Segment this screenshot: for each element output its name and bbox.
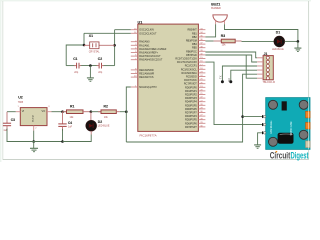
svg-text:10k: 10k [104, 116, 109, 119]
svg-text:LED-BLUE: LED-BLUE [272, 48, 284, 51]
svg-text:RD6/PSP6: RD6/PSP6 [185, 122, 197, 125]
wire buzzer left pin to U1 RB2 [205, 24, 215, 37]
svg-text:1: 1 [18, 106, 20, 108]
node ground rail U2 junction [32, 140, 35, 143]
crystal X1 label [89, 34, 93, 38]
node RX tap dot [229, 80, 232, 83]
LED D2 label [98, 120, 102, 124]
wire MCLR net: U1 pin1 down to bottom rail [126, 87, 131, 142]
svg-text:GSM Module: GSM Module [271, 120, 273, 134]
node ground rail C4 junction [61, 140, 64, 143]
connector J1 type label TBLOCK-I6 [263, 81, 276, 84]
connector J1 label [264, 52, 268, 56]
node crystal left junction [83, 44, 86, 47]
ground module [254, 144, 261, 146]
svg-text:C1: C1 [73, 57, 77, 61]
module orange connector 1 [306, 111, 311, 118]
capacitor C4 value 1uF [68, 126, 73, 129]
wire buzzer right pin to top rail [225, 24, 298, 41]
regulator U2 label [18, 96, 23, 100]
U2 pin numbers [18, 106, 20, 108]
svg-text:RB1: RB1 [192, 32, 197, 35]
resistor R2 label [104, 104, 108, 108]
connector J1 pin circles and stubs [257, 56, 269, 79]
crystal X1 value label CRYSTAL [89, 51, 100, 54]
svg-text:RD4/PSP4: RD4/PSP4 [185, 115, 197, 118]
node TX tap dot [221, 80, 224, 83]
svg-text:CRYSTAL: CRYSTAL [89, 51, 100, 54]
wire left node jog to C1 [66, 45, 84, 66]
svg-text:RB7/PGD: RB7/PGD [186, 54, 197, 57]
svg-text:RD6/PSP6: RD6/PSP6 [185, 108, 197, 111]
wire tap RX to J1 pin4 [231, 70, 257, 82]
capacitor C2 value 22p [98, 71, 103, 74]
wire long net to module pin1 [243, 116, 262, 118]
wire long net MCLR/module to J1 pin5 [126, 74, 257, 142]
module antenna black patch [278, 133, 294, 144]
capacitor C3 label [11, 118, 15, 122]
resistor R3 [214, 40, 222, 42]
svg-text:BUZZER: BUZZER [211, 7, 221, 10]
IC U1 PIC16F877A body [138, 24, 199, 131]
svg-text:C4: C4 [68, 121, 72, 125]
svg-text:R2: R2 [104, 104, 108, 108]
svg-text:10k: 10k [222, 43, 227, 46]
svg-text:1uF: 1uF [68, 126, 73, 129]
label TX tap [219, 75, 223, 79]
wire U1 RB3 to R3 [205, 40, 213, 42]
svg-text:C2: C2 [98, 57, 102, 61]
svg-text:RB2: RB2 [192, 36, 197, 39]
svg-text:U2: U2 [18, 96, 23, 100]
U1 left pins with numbers [131, 28, 167, 89]
svg-text:BUZ1: BUZ1 [211, 3, 220, 7]
wire crystal left node vertical [83, 33, 85, 45]
ground crystal caps [87, 77, 94, 79]
node crystal right junction [113, 44, 116, 47]
svg-text:RC3/SCK/SCL: RC3/SCK/SCL [181, 68, 198, 71]
sheet border overlay on module [308, 98, 310, 150]
svg-text:D1: D1 [276, 30, 280, 34]
svg-text:X1: X1 [89, 34, 93, 38]
op-amp U1 label [138, 20, 143, 24]
svg-text:RD0/PSP0: RD0/PSP0 [185, 86, 197, 89]
wire input rail C3 to U2 VI [7, 111, 16, 113]
svg-text:RB0/INT: RB0/INT [187, 29, 197, 32]
capacitor C1 value 22p [74, 71, 79, 74]
label RX tap [227, 78, 231, 82]
capacitor C2 [97, 65, 100, 67]
svg-text:OSC2/CLKOUT: OSC2/CLKOUT [139, 32, 157, 35]
svg-text:RD3/PSP3: RD3/PSP3 [185, 97, 197, 100]
capacitor C4 label [68, 121, 72, 125]
module silk text center (vertical) [291, 122, 293, 136]
svg-text:22p: 22p [98, 71, 103, 74]
crystal X1 leads [84, 44, 90, 46]
svg-text:RC0/T1OSO/T1CKI: RC0/T1OSO/T1CKI [175, 58, 197, 61]
LED D1 [274, 36, 285, 47]
wire R3 to D1 [242, 40, 275, 42]
U1 part-type label PIC16F877A [140, 134, 157, 138]
svg-text:LED-BLUE: LED-BLUE [98, 125, 110, 128]
svg-text:RA0/AN0: RA0/AN0 [139, 41, 150, 44]
svg-text:RB3/PGM: RB3/PGM [186, 40, 197, 43]
svg-text:RD2/PSP2: RD2/PSP2 [185, 94, 197, 97]
wire U1 RB6 to J1 pin1 [205, 52, 257, 58]
buzzer pins [215, 21, 217, 25]
sheet border [0, 0, 311, 1]
resistor R1 label [70, 104, 74, 108]
ground D1 [294, 47, 301, 49]
wire crystal right node vertical [114, 30, 116, 66]
module beige connector bottom right [306, 141, 311, 148]
svg-text:RD7/PSP7: RD7/PSP7 [185, 112, 197, 115]
svg-text:D2: D2 [98, 120, 102, 124]
svg-text:3: 3 [48, 106, 50, 108]
svg-text:RD1/PSP1: RD1/PSP1 [185, 90, 197, 93]
buzzer BUZ1 label [211, 3, 220, 7]
module board body [266, 98, 310, 150]
svg-text:RE1/AN6/WR: RE1/AN6/WR [139, 73, 154, 76]
wire C3 bottom to ground rail [7, 129, 63, 142]
buzzer BUZ1 type label BUZZER [211, 7, 221, 10]
resistor R3 label [221, 34, 225, 38]
module orange connector 2 [306, 122, 311, 129]
wire OSC1 from crystal right node to U1 pin 13 [115, 29, 131, 31]
svg-text:RD4/PSP4: RD4/PSP4 [185, 101, 197, 104]
connector J1 body [263, 56, 273, 80]
svg-text:SIM800 GSM: SIM800 GSM [291, 122, 293, 136]
svg-text:RB5: RB5 [192, 47, 197, 50]
module mounting holes [269, 100, 278, 109]
svg-text:RD7/PSP7: RD7/PSP7 [185, 126, 197, 129]
node C4 junction [61, 110, 64, 113]
svg-text:RD5/PSP5: RD5/PSP5 [185, 119, 197, 122]
node capacitor row ground junction [89, 64, 92, 67]
LED D2 top lead [90, 112, 92, 121]
wire C4 bottom to ground rail [62, 129, 64, 142]
svg-text:C3: C3 [11, 118, 15, 122]
resistor R3 value 10k [222, 43, 227, 46]
svg-text:RC4/SDI/SDA: RC4/SDI/SDA [181, 72, 197, 75]
regulator U2 body [20, 108, 47, 126]
capacitor C1 label [73, 57, 77, 61]
svg-text:2: 2 [35, 128, 37, 130]
wire 5V rail VO to R1 R2 MCLR [52, 111, 67, 113]
svg-text:RA3/AN3/VREF+: RA3/AN3/VREF+ [139, 52, 158, 55]
wire D2 bottom to ground rail [90, 131, 92, 135]
svg-text:RC6/TX/CK: RC6/TX/CK [184, 79, 197, 82]
svg-text:R3: R3 [221, 34, 225, 38]
wire ground stem D1 [297, 41, 299, 47]
wire capacitor row C1 C2 [66, 65, 75, 67]
LED D1 type label LED-BLUE [272, 48, 284, 51]
svg-text:MCLR/Vpp/THV: MCLR/Vpp/THV [139, 86, 157, 89]
capacitor C4 [62, 112, 64, 124]
wire U1 RB7 to J1 pin2 [205, 55, 257, 62]
svg-text:RB6/PGC: RB6/PGC [186, 50, 197, 53]
module pin terminals [262, 115, 265, 118]
svg-text:TX: TX [219, 75, 223, 79]
regulator U2 type label 7805 [18, 101, 24, 104]
svg-text:G: G [32, 116, 34, 118]
svg-text:RB4: RB4 [192, 43, 197, 46]
svg-text:RE2/AN7/CS: RE2/AN7/CS [139, 76, 154, 79]
U1 right pins with numbers [175, 28, 205, 129]
wire ground stem crystal [89, 66, 91, 78]
wire OSC2 from crystal left node to U1 pin 14 [84, 32, 131, 34]
svg-text:RA4/T0CKI/C1OUT: RA4/T0CKI/C1OUT [139, 55, 161, 58]
buzzer BUZ1 [213, 15, 227, 22]
capacitor C2 label [98, 57, 102, 61]
svg-text:RD5/PSP5: RD5/PSP5 [185, 104, 197, 107]
module component black rect top [282, 101, 287, 110]
svg-text:RA5/AN4/SS/C2OUT: RA5/AN4/SS/C2OUT [139, 59, 163, 62]
svg-text:TBLOCK-I6: TBLOCK-I6 [263, 81, 276, 84]
capacitor C1 [74, 65, 77, 67]
svg-text:RC5/SDO: RC5/SDO [186, 76, 197, 79]
node module pin1 junction on long net [241, 115, 244, 118]
capacitor C3 [6, 112, 8, 123]
svg-text:RC7/RX/DT: RC7/RX/DT [184, 83, 197, 86]
resistor R1 value 1k [70, 116, 75, 119]
node D2 junction [90, 110, 93, 113]
node D1 ground junction [297, 40, 300, 43]
ground power rail [33, 142, 35, 149]
svg-text:OSC1/CLKIN: OSC1/CLKIN [139, 29, 154, 32]
svg-text:PIC16F877A: PIC16F877A [140, 134, 157, 138]
wire long net v2 to J1 pin6 [246, 55, 257, 78]
CircuitDigest logo [270, 151, 309, 161]
wire module pin3 to ground [258, 133, 262, 145]
node MCLR junction [125, 110, 128, 113]
svg-text:10k: 10k [70, 116, 75, 119]
svg-text:RE0/AN5/RD: RE0/AN5/RD [139, 69, 154, 72]
wire tap TX to J1 pin3 [222, 66, 257, 82]
svg-text:Circuit: Circuit [270, 151, 291, 161]
LED D2 [86, 120, 97, 131]
svg-text:Digest: Digest [291, 151, 309, 161]
wire U2 GND pin to ground rail [33, 126, 35, 131]
wire U2 VO stub [47, 111, 52, 113]
wire D1 to ground junction [285, 40, 298, 42]
svg-text:7805: 7805 [18, 101, 24, 104]
resistor R1 [63, 111, 67, 113]
svg-text:RC1/T1OSI/CCP2: RC1/T1OSI/CCP2 [177, 61, 197, 64]
resistor R2 [91, 111, 101, 113]
LED D2 type label LED-BLUE [98, 125, 110, 128]
svg-text:RA1/AN1: RA1/AN1 [139, 44, 150, 47]
capacitor C3 value 1uF [3, 129, 8, 132]
svg-text:RA2/AN2/VREF-/CVREF: RA2/AN2/VREF-/CVREF [139, 48, 167, 51]
svg-text:R1: R1 [70, 104, 74, 108]
resistor R2 value 10k [104, 116, 109, 119]
svg-text:22p: 22p [74, 71, 79, 74]
LED D1 label [276, 30, 280, 34]
module silk text left (vertical) [271, 120, 273, 134]
wire U1 RC pin to module pin2 [205, 62, 262, 125]
svg-text:RC2/CCP1: RC2/CCP1 [185, 65, 198, 68]
crystal X1 [90, 42, 99, 49]
svg-text:RX: RX [227, 78, 231, 82]
